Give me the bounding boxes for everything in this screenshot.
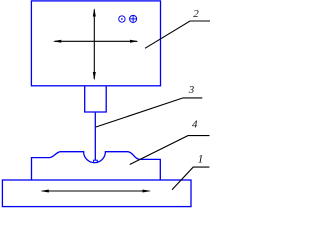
workpiece (item 4) profile — [32, 152, 161, 180]
axis symbol: circle with plus (away from viewer) — [130, 15, 137, 22]
vertical feed arrow inside head — [93, 8, 96, 81]
spindle quill — [85, 87, 107, 113]
svg-text:3: 3 — [188, 84, 195, 96]
svg-text:4: 4 — [192, 119, 198, 131]
table feed arrow — [40, 190, 151, 193]
milling head housing (item 2) — [31, 1, 160, 86]
machine table (item 1) — [2, 180, 191, 207]
leader line to label 4 — [130, 136, 210, 165]
tool tip — [94, 160, 98, 162]
leader line to label 2 — [145, 21, 210, 48]
svg-text:1: 1 — [198, 153, 204, 165]
axis symbol: circle with dot (toward viewer) — [119, 16, 125, 22]
leader line to label 1 — [172, 167, 209, 190]
leader line to label 3 — [96, 98, 202, 127]
svg-text:2: 2 — [193, 8, 199, 20]
horizontal feed arrow inside head — [53, 40, 139, 43]
tool shank (item 3) — [94, 113, 96, 160]
